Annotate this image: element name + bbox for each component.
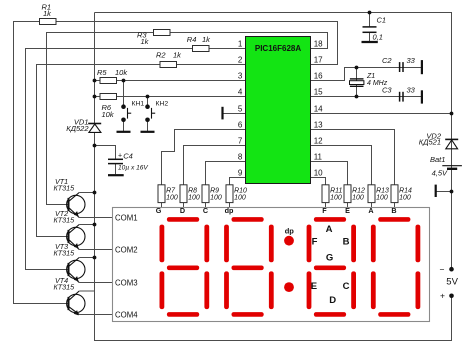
svg-text:PIC16F628A: PIC16F628A bbox=[255, 44, 301, 53]
wire R5 to pin 3 bbox=[117, 80, 246, 82]
svg-text:5: 5 bbox=[238, 104, 243, 113]
svg-text:Bat1: Bat1 bbox=[430, 155, 445, 164]
wire pin 11 to R12 bbox=[311, 162, 348, 185]
digit 4 segment D bbox=[378, 312, 410, 317]
IC U1 PIC16F628A bbox=[246, 37, 311, 184]
svg-text:R2: R2 bbox=[156, 50, 166, 59]
svg-text:C3: C3 bbox=[382, 85, 392, 94]
junction battery ground bbox=[450, 190, 454, 194]
svg-text:F: F bbox=[322, 206, 327, 215]
wire pin 13 to R14 bbox=[311, 130, 395, 185]
digit 4 segment B bbox=[416, 225, 421, 263]
svg-text:100: 100 bbox=[234, 195, 246, 202]
svg-text:2: 2 bbox=[238, 55, 243, 64]
svg-text:COM2: COM2 bbox=[115, 246, 138, 255]
digit 2 segment D bbox=[232, 312, 264, 317]
svg-text:3: 3 bbox=[238, 71, 243, 80]
wire pin 10 to R11 bbox=[311, 178, 326, 185]
svg-text:9: 9 bbox=[238, 168, 243, 177]
digit 4 segment E bbox=[371, 271, 376, 309]
svg-text:10µ x 16V: 10µ x 16V bbox=[118, 165, 148, 172]
wire COM1 bbox=[79, 217, 112, 219]
svg-text:11: 11 bbox=[314, 152, 323, 161]
wire R13 to display bbox=[371, 203, 373, 208]
svg-text:КД521: КД521 bbox=[419, 138, 441, 147]
junction KH1 tap bbox=[122, 79, 126, 83]
svg-text:dp: dp bbox=[285, 226, 295, 235]
svg-text:C: C bbox=[343, 281, 350, 292]
wire R6 to pin 4 bbox=[117, 96, 246, 98]
ground C1 bbox=[362, 41, 378, 43]
transistor VT4 KT315 bbox=[67, 294, 85, 312]
svg-text:1k: 1k bbox=[141, 37, 150, 46]
digit 2 segment C bbox=[269, 271, 274, 309]
wire left main rail lower and bottom return bbox=[95, 132, 452, 340]
svg-text:R9: R9 bbox=[210, 188, 219, 195]
svg-text:10: 10 bbox=[314, 168, 323, 177]
capacitor C1 bbox=[363, 26, 377, 28]
crystal Z1 4MHz bbox=[350, 78, 364, 80]
svg-text:100: 100 bbox=[166, 195, 178, 202]
svg-text:8: 8 bbox=[238, 152, 243, 161]
svg-text:R13: R13 bbox=[376, 188, 389, 195]
wire pin 8 to R9 bbox=[206, 162, 246, 185]
svg-text:F: F bbox=[312, 236, 318, 247]
wire COM4 bbox=[79, 314, 112, 316]
wire R2 net to VT2 base bbox=[37, 65, 161, 237]
wire top supply rail bbox=[95, 13, 452, 114]
svg-text:14: 14 bbox=[314, 104, 323, 113]
digit 1 segment E bbox=[160, 271, 165, 309]
diode VD2 bbox=[445, 138, 458, 140]
junction R5 rail bbox=[93, 79, 97, 83]
svg-text:A: A bbox=[326, 224, 333, 235]
svg-text:18: 18 bbox=[314, 39, 323, 48]
svg-text:R10: R10 bbox=[234, 188, 247, 195]
svg-text:R7: R7 bbox=[166, 188, 176, 195]
ground C2 bbox=[421, 60, 423, 74]
wire pin 12 to R13 bbox=[311, 146, 372, 185]
capacitor C3 bbox=[399, 92, 401, 102]
ground C3 bbox=[421, 90, 423, 103]
resistor R5 bbox=[100, 78, 117, 84]
junction VT1 collector bbox=[93, 191, 97, 195]
wire R9 to display bbox=[205, 203, 207, 208]
wire R4 to pin 1 bbox=[209, 48, 246, 50]
resistor R11 bbox=[322, 185, 329, 203]
svg-text:R11: R11 bbox=[330, 188, 342, 195]
junction crystal bottom bbox=[355, 95, 359, 99]
svg-text:C: C bbox=[203, 206, 208, 215]
resistor R10 bbox=[226, 185, 233, 203]
svg-text:R12: R12 bbox=[352, 188, 365, 195]
wire KH1 branch bbox=[123, 81, 125, 107]
svg-text:dp: dp bbox=[225, 206, 234, 215]
svg-text:1: 1 bbox=[238, 39, 243, 48]
digit 1 segment B bbox=[204, 225, 209, 263]
svg-text:КТ315: КТ315 bbox=[54, 183, 76, 192]
wire KH2 to ground bbox=[147, 120, 149, 132]
svg-text:D: D bbox=[329, 295, 336, 306]
wire R8 to display bbox=[183, 203, 185, 208]
capacitor C2 bbox=[399, 62, 401, 72]
digit 1 segment F bbox=[160, 225, 165, 263]
wire R12 to display bbox=[347, 203, 349, 208]
wire COM2 bbox=[79, 249, 112, 251]
svg-text:G: G bbox=[326, 252, 333, 263]
svg-text:КТ315: КТ315 bbox=[54, 215, 76, 224]
terminal plus bbox=[449, 294, 454, 299]
svg-text:33: 33 bbox=[407, 85, 416, 94]
digit 2 segment B bbox=[269, 225, 274, 263]
switch KH2 bbox=[145, 104, 150, 109]
svg-text:+: + bbox=[118, 153, 122, 160]
wire R3 net to VT1 base bbox=[47, 33, 154, 205]
wire pin 14 to rail bbox=[311, 113, 452, 115]
svg-text:COM4: COM4 bbox=[115, 310, 138, 319]
svg-text:100: 100 bbox=[376, 195, 388, 202]
svg-text:6: 6 bbox=[238, 120, 243, 129]
wire pin 7 to R8 bbox=[184, 146, 246, 185]
svg-text:12: 12 bbox=[314, 136, 323, 145]
junction C4 tap bbox=[93, 144, 97, 148]
svg-text:A: A bbox=[368, 206, 373, 215]
svg-text:7: 7 bbox=[238, 136, 243, 145]
wire R11 to display bbox=[325, 203, 327, 208]
svg-text:100: 100 bbox=[210, 195, 222, 202]
junction VT2 collector bbox=[93, 223, 97, 227]
junction crystal top bbox=[355, 66, 359, 70]
diode VD1 bbox=[88, 123, 101, 125]
resistor R3 bbox=[154, 30, 171, 36]
wire crystal branch bbox=[356, 68, 358, 97]
svg-text:E: E bbox=[345, 206, 350, 215]
svg-text:R8: R8 bbox=[188, 188, 197, 195]
svg-text:КН1: КН1 bbox=[132, 101, 145, 108]
capacitor C4 bbox=[108, 158, 123, 160]
digit 3 segment D bbox=[314, 312, 346, 317]
svg-text:15: 15 bbox=[314, 87, 323, 96]
svg-text:C1: C1 bbox=[377, 16, 387, 25]
ground pin5 bbox=[221, 107, 223, 120]
svg-text:−: − bbox=[440, 265, 445, 275]
junction KH2 tap bbox=[146, 95, 150, 99]
wire R14 to display bbox=[394, 203, 396, 208]
wire right rail battery section bbox=[451, 114, 453, 270]
svg-text:C4: C4 bbox=[123, 151, 133, 160]
wire C1 branch bbox=[369, 13, 371, 27]
digit 3 segment C bbox=[351, 271, 356, 309]
svg-text:C2: C2 bbox=[382, 56, 392, 65]
digit 4 segment A bbox=[378, 217, 410, 222]
svg-text:КД522: КД522 bbox=[66, 124, 89, 133]
digit 3 segment E bbox=[307, 271, 312, 309]
digit 3 segment G bbox=[314, 266, 346, 271]
ground KH1 bbox=[117, 131, 131, 133]
junction C1 bbox=[368, 11, 372, 15]
wire KH1 to ground bbox=[123, 120, 125, 132]
wire R1 to pin 17 bbox=[56, 22, 338, 65]
digit 1 segment G bbox=[167, 266, 199, 271]
resistor R6 bbox=[100, 94, 117, 100]
svg-text:1k: 1k bbox=[202, 35, 211, 44]
colon dot lower bbox=[284, 282, 294, 292]
svg-text:КН2: КН2 bbox=[156, 101, 169, 108]
wire pin 5 to ground bbox=[223, 113, 246, 115]
svg-text:100: 100 bbox=[352, 195, 364, 202]
resistor R2 bbox=[160, 62, 177, 68]
svg-text:5V: 5V bbox=[446, 276, 458, 287]
wire C4 branch bbox=[95, 146, 116, 160]
svg-text:E: E bbox=[311, 281, 317, 292]
wire pin 16 / C2 row bbox=[311, 68, 422, 81]
svg-text:R4: R4 bbox=[187, 35, 197, 44]
svg-text:33: 33 bbox=[407, 56, 416, 65]
resistor R14 bbox=[391, 185, 398, 203]
wire battery ground tap bbox=[436, 191, 452, 193]
wire COM3 bbox=[79, 282, 112, 284]
svg-text:R5: R5 bbox=[97, 68, 107, 77]
digit 3 segment B bbox=[351, 225, 356, 263]
svg-text:10k: 10k bbox=[115, 68, 128, 77]
wire pin 9 to R10 bbox=[230, 178, 246, 185]
svg-text:КТ315: КТ315 bbox=[54, 248, 76, 257]
ground KH2 bbox=[141, 131, 155, 133]
svg-text:COM1: COM1 bbox=[115, 213, 138, 222]
svg-text:0,1: 0,1 bbox=[373, 33, 383, 42]
display module box bbox=[113, 208, 430, 322]
transistor VT1 KT315 bbox=[67, 195, 85, 213]
wire R4 net to VT3 base bbox=[26, 49, 193, 270]
wire R10 to display bbox=[229, 203, 231, 208]
battery Bat1 bbox=[442, 165, 462, 167]
svg-text:100: 100 bbox=[399, 195, 411, 202]
resistor R7 bbox=[158, 185, 165, 203]
resistor R9 bbox=[202, 185, 209, 203]
digit 2 segment G bbox=[232, 266, 264, 271]
ground C4 bbox=[108, 174, 124, 176]
svg-text:КТ315: КТ315 bbox=[54, 282, 76, 291]
resistor R1 bbox=[40, 19, 57, 25]
svg-text:4,5V: 4,5V bbox=[432, 168, 448, 177]
svg-text:R14: R14 bbox=[399, 188, 412, 195]
junction R6 rail bbox=[93, 95, 97, 99]
resistor R4 bbox=[193, 46, 210, 52]
svg-text:100: 100 bbox=[188, 195, 200, 202]
svg-text:1k: 1k bbox=[43, 9, 52, 18]
wire pin 6 to R7 bbox=[162, 130, 246, 185]
svg-text:4: 4 bbox=[238, 87, 243, 96]
colon dot upper bbox=[284, 236, 294, 246]
wire left main rail upper bbox=[94, 13, 96, 124]
wire R3 to pin 18 bbox=[170, 33, 328, 49]
digit 2 segment F bbox=[224, 225, 229, 263]
resistor R13 bbox=[368, 185, 375, 203]
wire rail to R6 bbox=[95, 96, 101, 98]
switch KH1 bbox=[121, 104, 126, 109]
wire R7 to display bbox=[161, 203, 163, 208]
resistor R8 bbox=[180, 185, 187, 203]
svg-text:17: 17 bbox=[314, 55, 323, 64]
wire pin 15 / C3 row bbox=[311, 96, 422, 98]
digit 4 segment C bbox=[416, 271, 421, 309]
svg-text:COM3: COM3 bbox=[115, 278, 138, 287]
digit 1 segment A bbox=[167, 217, 199, 222]
wire KH2 branch bbox=[147, 97, 149, 107]
junction pin14 rail bbox=[450, 112, 454, 116]
svg-text:B: B bbox=[343, 236, 350, 247]
digit 2 segment E bbox=[224, 271, 229, 309]
wire R1 net to VT4 base bbox=[14, 22, 69, 304]
svg-text:10k: 10k bbox=[102, 110, 115, 119]
svg-text:+: + bbox=[440, 291, 445, 301]
svg-text:D: D bbox=[180, 206, 185, 215]
digit 1 segment D bbox=[167, 312, 199, 317]
resistor R12 bbox=[344, 185, 351, 203]
svg-text:13: 13 bbox=[314, 120, 323, 129]
transistor VT3 KT315 bbox=[67, 260, 85, 278]
svg-text:B: B bbox=[391, 206, 396, 215]
svg-text:1k: 1k bbox=[173, 50, 182, 59]
digit 1 segment C bbox=[204, 271, 209, 309]
svg-text:16: 16 bbox=[314, 71, 323, 80]
svg-text:G: G bbox=[156, 206, 162, 215]
digit 4 segment F bbox=[371, 225, 376, 263]
wire rail to R5 bbox=[95, 80, 101, 82]
wire R2 to pin 2 bbox=[177, 64, 246, 66]
digit 2 segment A bbox=[232, 217, 264, 222]
transistor VT2 KT315 bbox=[67, 227, 85, 245]
svg-text:100: 100 bbox=[330, 195, 342, 202]
junction VT3 collector bbox=[93, 256, 97, 260]
digit 3 segment F bbox=[307, 225, 312, 263]
ground battery bbox=[435, 185, 437, 197]
terminal minus bbox=[449, 267, 454, 272]
digit 3 segment A bbox=[314, 217, 346, 222]
